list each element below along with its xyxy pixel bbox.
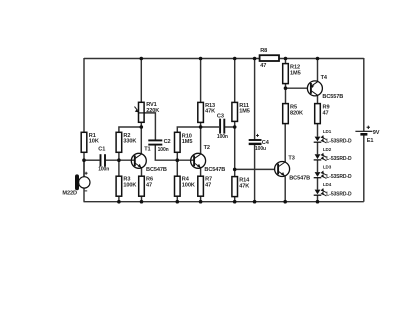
svg-text:LD4: LD4	[323, 182, 332, 187]
wire T2 collector	[200, 127, 202, 154]
svg-text:330K: 330K	[123, 139, 136, 145]
capacitor C1	[98, 146, 109, 172]
junction R11 top at +9V rail	[233, 57, 237, 61]
junction R7 at ground rail	[199, 200, 203, 204]
wire R4 bottom	[176, 196, 178, 202]
wire R7 bottom	[200, 196, 202, 202]
svg-text:9V: 9V	[373, 130, 380, 136]
svg-text:T2: T2	[204, 145, 210, 151]
wire C2 top leg from RV1 wiper	[144, 113, 155, 140]
svg-text:100K: 100K	[123, 183, 136, 189]
resistor R13	[198, 102, 215, 122]
resistor R5	[283, 104, 303, 124]
svg-text:47: 47	[260, 63, 266, 69]
wire LD3 to LD4	[317, 178, 319, 190]
wire R3 bottom	[118, 196, 120, 202]
wire T4 collector	[317, 58, 319, 82]
wire R14 top	[234, 169, 236, 176]
wire T3 emitter	[284, 176, 286, 201]
battery E1	[355, 126, 379, 144]
transistor T4	[307, 75, 343, 100]
wire R10 bottom	[176, 152, 178, 160]
junction R6 at ground rail	[140, 200, 144, 204]
wire T2 base	[177, 159, 194, 161]
svg-text:C1: C1	[98, 146, 105, 152]
wire LD2 to LD3	[317, 160, 319, 172]
wire right rail	[363, 58, 365, 202]
resistor R4	[175, 176, 195, 196]
LED LD3	[314, 165, 352, 180]
resistor R14	[232, 177, 250, 197]
svg-text:47K: 47K	[239, 183, 249, 189]
svg-text:LD1: LD1	[323, 129, 332, 134]
wire R14 bottom	[234, 197, 236, 202]
wire T1 collector	[140, 127, 142, 154]
wire T4 base	[286, 87, 308, 89]
wire top rail	[84, 58, 364, 60]
junction R3 at ground rail	[117, 200, 121, 204]
wire T2 emitter to R7	[200, 168, 202, 177]
transistor T2	[191, 145, 226, 173]
svg-text:L-53SRD-D: L-53SRD-D	[326, 156, 352, 162]
svg-text:BC547B: BC547B	[204, 167, 225, 173]
svg-text:BC547B: BC547B	[146, 167, 167, 173]
wire RV1 top	[140, 58, 142, 102]
svg-text:100n: 100n	[98, 167, 109, 173]
svg-text:C3: C3	[217, 113, 224, 119]
wire R5 top	[285, 88, 287, 103]
junction C4 at ground rail	[253, 200, 257, 204]
wire R2 bottom	[118, 152, 120, 160]
wire R12 top	[285, 58, 287, 64]
LED LD2	[314, 147, 352, 162]
wire R13 top	[200, 58, 202, 102]
capacitor C4 electrolytic	[249, 134, 270, 152]
svg-text:47: 47	[323, 110, 329, 116]
transistor T1	[131, 147, 167, 174]
wire RV1 bottom to collector node	[140, 122, 142, 127]
junction node T1 collector	[140, 125, 144, 129]
junction R12 top at +9V rail	[284, 57, 288, 61]
svg-text:10K: 10K	[89, 139, 99, 145]
svg-text:1M5: 1M5	[290, 70, 301, 76]
svg-text:BC547B: BC547B	[289, 176, 310, 182]
microphone M1	[62, 172, 90, 197]
transistor T3	[275, 156, 311, 182]
junction node T2 base	[176, 158, 180, 162]
resistor R11	[232, 102, 250, 121]
trimmer RV1	[135, 102, 160, 122]
wire R3 top	[118, 160, 120, 176]
svg-text:R8: R8	[260, 48, 267, 54]
wire R10 top	[177, 127, 200, 132]
wire C1 left	[84, 159, 100, 161]
junction T3 emitter at ground rail	[283, 200, 287, 204]
resistor R7	[198, 176, 212, 196]
LED LD1	[314, 129, 352, 144]
wire R12 bottom to T4 base node	[285, 84, 287, 89]
capacitor C3	[217, 113, 228, 139]
svg-text:100n: 100n	[158, 147, 169, 153]
resistor R8	[260, 48, 279, 69]
junction R14 at ground rail	[233, 200, 237, 204]
wire R2 top feedback	[119, 127, 141, 132]
junction T4 collector at +9V rail	[316, 57, 320, 61]
resistor R1	[81, 132, 99, 152]
resistor R12	[283, 64, 301, 84]
junction node T1 base	[117, 158, 121, 162]
wire R11 bottom	[234, 121, 236, 127]
resistor R3	[116, 176, 136, 196]
junction node T3 base	[233, 168, 237, 172]
svg-text:1M5: 1M5	[239, 109, 250, 115]
wire detector node down	[234, 127, 236, 169]
wire left rail	[83, 58, 85, 202]
svg-text:47: 47	[205, 183, 211, 189]
wire C3 to R11 node	[225, 126, 235, 128]
wire T3 base	[235, 168, 275, 170]
junction node mic/R1/C1	[82, 158, 86, 162]
junction node T2 collector	[199, 125, 203, 129]
svg-text:T4: T4	[321, 75, 328, 81]
capacitor C2	[148, 139, 170, 153]
wire node to C3	[201, 126, 219, 128]
wire T3 collector	[284, 124, 286, 163]
svg-text:820K: 820K	[290, 110, 303, 116]
wire R4 top	[176, 160, 178, 176]
junction node T4 base	[284, 86, 288, 90]
svg-text:LD3: LD3	[323, 165, 332, 170]
svg-text:T3: T3	[288, 156, 294, 162]
wire LD4 to ground rail	[317, 195, 319, 202]
svg-text:220K: 220K	[146, 108, 159, 114]
svg-text:1M5: 1M5	[182, 139, 193, 145]
wire R11 top	[234, 58, 236, 102]
wire C2 bottom leg to T2 base node	[155, 145, 177, 161]
svg-text:100K: 100K	[182, 183, 195, 189]
resistor R6	[139, 176, 153, 196]
svg-text:LD2: LD2	[323, 147, 332, 152]
wire C4 lower drop	[254, 145, 256, 202]
resistor R2	[116, 132, 136, 152]
wire mic top	[83, 160, 85, 177]
junction LED chain at ground rail	[316, 200, 320, 204]
svg-text:M22D: M22D	[62, 191, 77, 197]
wire R13 bottom	[200, 122, 202, 127]
resistor R9	[315, 104, 330, 124]
svg-text:47: 47	[146, 183, 152, 189]
junction C4 top at +9V rail	[253, 57, 257, 61]
junction RV1 top at +9V rail	[140, 57, 144, 61]
svg-text:E1: E1	[367, 138, 374, 144]
svg-text:BC557B: BC557B	[322, 94, 343, 100]
wire R6 bottom	[141, 196, 143, 202]
wire T1 emitter to R6	[141, 168, 143, 177]
wire R9 to LD1	[317, 123, 319, 136]
svg-text:C2: C2	[164, 139, 171, 145]
svg-text:100u: 100u	[255, 146, 266, 152]
svg-text:L-53SRD-D: L-53SRD-D	[326, 174, 352, 180]
wire LD1 to LD2	[317, 142, 319, 154]
svg-text:L-53SRD-D: L-53SRD-D	[326, 191, 352, 197]
junction R4 at ground rail	[176, 200, 180, 204]
wire T4 emitter to R9	[317, 95, 319, 104]
junction node R11/C3	[233, 125, 237, 129]
svg-text:L-53SRD-D: L-53SRD-D	[326, 138, 352, 144]
svg-text:47K: 47K	[205, 109, 215, 115]
wire bottom rail	[84, 201, 364, 203]
wire C1 right to T1 base	[105, 159, 135, 161]
svg-text:T1: T1	[144, 147, 150, 153]
LED LD4	[314, 182, 352, 197]
wire C4 upper drop	[254, 58, 256, 140]
junction R13 top at +9V rail	[199, 57, 203, 61]
resistor R10	[175, 132, 193, 152]
svg-text:100n: 100n	[217, 134, 228, 140]
